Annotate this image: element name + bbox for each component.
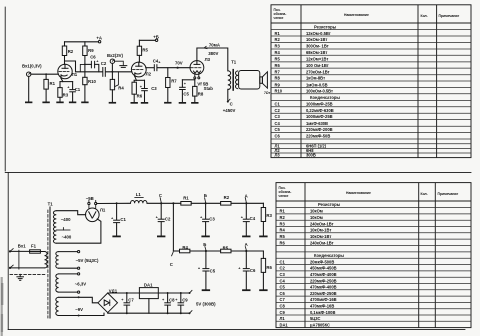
T1 5V winding — [56, 252, 59, 269]
wire pin2 to primary bottom — [10, 267, 45, 269]
svg-text:68кОм-1Вт: 68кОм-1Вт — [306, 50, 327, 55]
svg-text:450мкФ-450В: 450мкФ-450В — [310, 266, 337, 271]
resistor R7 — [167, 68, 169, 78]
wire B+ rail — [97, 202, 131, 204]
svg-text:R3: R3 — [63, 93, 69, 98]
wire cathode Л3 — [194, 79, 196, 87]
capacitor C5 (psu) — [205, 251, 207, 268]
resistor R3 — [59, 82, 61, 88]
speaker — [239, 71, 260, 90]
input jack Вх1 — [27, 72, 31, 76]
svg-text:10кОм-1Вт: 10кОм-1Вт — [310, 234, 331, 239]
triode Л3 — [190, 61, 204, 75]
wire C2 to grid Л2 — [106, 71, 132, 73]
capacitor C1 (psu) — [116, 202, 118, 204]
wire +A rail — [65, 41, 99, 43]
resistor R1 — [45, 74, 47, 79]
svg-text:R4: R4 — [275, 50, 281, 55]
HV center tap — [56, 229, 70, 231]
ground (C1 psu) — [112, 236, 120, 238]
svg-text:C9: C9 — [182, 297, 188, 302]
resistor R5 (psu) — [221, 249, 231, 253]
svg-text:R7: R7 — [171, 78, 177, 83]
svg-text:10кОм-1Вт: 10кОм-1Вт — [306, 37, 327, 42]
svg-text:Л1: Л1 — [100, 207, 106, 212]
wire pin1 to fuse — [10, 250, 30, 252]
svg-text:C5: C5 — [275, 127, 281, 132]
svg-text:R9: R9 — [88, 48, 94, 53]
wire C4 to grid Л3 — [157, 67, 190, 69]
ground (R6 psu) — [259, 289, 267, 291]
node А (row2) — [245, 250, 247, 252]
svg-text:300В: 300В — [306, 153, 316, 158]
svg-text:R2: R2 — [68, 49, 74, 54]
svg-text:Кол.: Кол. — [421, 192, 428, 196]
svg-text:R8: R8 — [275, 76, 281, 81]
wire plate Л2 to C4 — [146, 67, 154, 69]
svg-text:C3: C3 — [151, 86, 157, 91]
triode Л2 — [131, 62, 146, 77]
svg-text:Конденсаторы: Конденсаторы — [310, 95, 340, 100]
svg-text:0,22мкФ-630В: 0,22мкФ-630В — [306, 108, 334, 113]
node R1 top — [45, 73, 47, 75]
svg-text:Кол.: Кол. — [421, 14, 428, 18]
svg-text:~9V: ~9V — [75, 307, 83, 312]
svg-text:C1: C1 — [75, 87, 81, 92]
svg-text:1000мкФ-25В: 1000мкФ-25В — [306, 114, 333, 119]
svg-text:R5: R5 — [142, 48, 148, 53]
resistor R10 — [83, 77, 87, 84]
svg-text:Вх2(3V): Вх2(3V) — [107, 53, 124, 58]
node C (row1) — [160, 202, 162, 204]
top table row lines — [271, 29, 471, 31]
capacitor C5 — [181, 80, 183, 87]
svg-text:240кОм-1Вт: 240кОм-1Вт — [310, 221, 334, 226]
filament pins Л3 — [194, 77, 196, 79]
page edge scan band — [1, 277, 3, 336]
node branch to row2 — [172, 202, 174, 204]
svg-text:μА7805КС: μА7805КС — [310, 322, 330, 327]
output terminal 5V top — [189, 292, 191, 294]
svg-text:~5В: ~5В — [86, 196, 94, 201]
capacitor C1 — [72, 82, 74, 90]
wire C6 left stub — [80, 64, 85, 71]
svg-text:20мкФ-500В: 20мкФ-500В — [310, 259, 334, 264]
svg-text:R6: R6 — [137, 94, 143, 99]
svg-text:+Б: +Б — [153, 34, 159, 39]
resistor R9 — [84, 42, 86, 46]
svg-text:C6: C6 — [280, 291, 286, 296]
ground (R8) — [191, 102, 198, 104]
svg-text:R10: R10 — [88, 79, 96, 84]
resistor R2 (psu) — [221, 202, 231, 206]
svg-text:Б: Б — [203, 242, 206, 247]
svg-text:Л2: Л2 — [146, 72, 152, 77]
wire cathode Л1 — [61, 78, 63, 81]
svg-text:R4: R4 — [118, 86, 124, 91]
svg-text:10кОм: 10кОм — [310, 209, 323, 214]
capacitor C3 (psu) — [205, 203, 207, 219]
T1 HV winding ~400/~400 — [53, 211, 56, 244]
svg-text:Т1: Т1 — [48, 202, 54, 207]
wire R2 to R3 — [231, 202, 263, 204]
ground (jack) — [25, 102, 32, 104]
capacitor C8 — [167, 292, 169, 294]
ground (C6 psu) — [242, 289, 250, 291]
capacitor C4 — [153, 64, 155, 71]
svg-text:R3: R3 — [266, 213, 272, 218]
svg-text:R1: R1 — [280, 209, 286, 214]
ground (C3) — [141, 102, 148, 104]
resistor R8 — [193, 86, 197, 96]
svg-text:чение: чение — [279, 194, 289, 198]
svg-text:Stab: Stab — [204, 86, 214, 91]
jack Вх2 sleeve chassis — [115, 61, 124, 65]
svg-text:380V: 380V — [208, 51, 218, 56]
svg-text:+450V: +450V — [223, 108, 236, 113]
svg-text:Примечание: Примечание — [439, 14, 460, 18]
svg-text:C: C — [230, 101, 233, 106]
svg-text:C2: C2 — [275, 108, 281, 113]
wire R4 to R5 — [190, 250, 221, 252]
svg-text:DA1: DA1 — [280, 322, 289, 327]
svg-text:10кОм-1Вт: 10кОм-1Вт — [310, 228, 331, 233]
svg-text:470мкФ-16В: 470мкФ-16В — [310, 304, 334, 309]
wire cathode Л2 — [135, 76, 137, 80]
svg-text:R8: R8 — [198, 91, 204, 96]
svg-text:1мкФ-630В: 1мкФ-630В — [306, 121, 328, 126]
resistor R1 (psu) — [181, 202, 191, 206]
resistor R6 — [133, 80, 135, 82]
svg-text:R10: R10 — [275, 89, 283, 94]
wire branch down — [172, 203, 174, 251]
wire top rail 5V — [108, 292, 190, 294]
top parts table frame — [271, 5, 471, 158]
svg-text:C7: C7 — [128, 297, 134, 302]
capacitor C4 (psu) — [245, 203, 247, 219]
svg-text:F1: F1 — [31, 243, 37, 248]
resistor R2 — [64, 42, 66, 46]
svg-text:~400: ~400 — [62, 235, 72, 240]
svg-text:Примечание: Примечание — [438, 192, 459, 196]
svg-text:C: C — [159, 193, 162, 198]
svg-text:C8: C8 — [169, 297, 175, 302]
svg-text:чение: чение — [274, 16, 284, 20]
terminal +A — [98, 41, 100, 43]
svg-text:R6: R6 — [280, 240, 286, 245]
svg-text:Л1: Л1 — [72, 72, 78, 77]
T1 9V winding — [56, 297, 59, 315]
node Б (row2) — [205, 250, 207, 252]
ground (R1) — [42, 102, 49, 104]
svg-text:C1: C1 — [275, 101, 281, 106]
svg-text:100 Ом-1Вт: 100 Ом-1Вт — [306, 63, 329, 68]
svg-text:C5: C5 — [183, 91, 189, 96]
svg-text:C3: C3 — [275, 114, 281, 119]
svg-text:C3: C3 — [280, 272, 286, 277]
bottom parts table frame — [276, 183, 471, 328]
ground (C2 psu) — [157, 236, 165, 238]
svg-text:Резисторы: Резисторы — [318, 202, 341, 207]
svg-text:C1: C1 — [120, 217, 126, 222]
rectifier tube Л1 (5Ц3С) — [86, 208, 100, 222]
wire jack to grid Л1 — [31, 73, 58, 75]
svg-text:R4: R4 — [280, 228, 286, 233]
capacitor C6 (psu) — [245, 251, 247, 268]
potentiometer R4 — [110, 79, 114, 89]
svg-text:C4: C4 — [280, 278, 286, 283]
svg-text:Л3: Л3 — [275, 153, 281, 158]
svg-text:Л1: Л1 — [280, 316, 286, 321]
resistor R6 (psu) — [262, 251, 264, 258]
node Вх2/R4 — [111, 71, 113, 73]
T1 primary winding (mains) — [45, 252, 48, 268]
svg-text:0,1мкФ-100В: 0,1мкФ-100В — [310, 310, 335, 315]
svg-text:А: А — [245, 194, 248, 199]
ground (R4) — [109, 102, 116, 104]
svg-text:1кОм-8Вт: 1кОм-8Вт — [306, 76, 325, 81]
node А (row1) — [245, 202, 247, 204]
ground (R3) — [56, 102, 63, 104]
wire T1 primary bottom to +450V — [227, 89, 229, 101]
wire bottom rail — [108, 312, 190, 315]
svg-text:100кОм-0.5Вт: 100кОм-0.5Вт — [306, 89, 333, 94]
svg-text:1мОм-0.5В: 1мОм-0.5В — [306, 82, 328, 87]
svg-text:R1: R1 — [183, 196, 189, 201]
wire HV top to rectifier plate — [56, 211, 85, 215]
svg-text:~6,3V: ~6,3V — [75, 282, 86, 287]
svg-text:R5: R5 — [275, 57, 281, 62]
svg-text:220мкФ-200В: 220мкФ-200В — [306, 127, 333, 132]
svg-text:12кОм×1Вт: 12кОм×1Вт — [306, 57, 328, 62]
svg-text:C4: C4 — [275, 121, 281, 126]
wire R5 to R6 — [231, 250, 263, 252]
ground (C4 psu) — [242, 236, 250, 238]
svg-text:C9: C9 — [280, 310, 286, 315]
bottom table row lines — [276, 206, 471, 208]
svg-text:R5: R5 — [223, 246, 229, 251]
shield dashed — [10, 273, 46, 275]
svg-text:10кОм: 10кОм — [310, 215, 323, 220]
capacitor C3 — [144, 80, 146, 88]
T1 primary winding — [228, 71, 231, 90]
ground (R7) — [164, 102, 171, 104]
svg-text:C2: C2 — [280, 266, 286, 271]
svg-text:220мкФ-250В: 220мкФ-250В — [310, 291, 337, 296]
svg-text:~400: ~400 — [61, 217, 71, 222]
ground (R6) — [131, 102, 138, 104]
ground (shield) — [19, 274, 21, 276]
ground (R3 psu) — [259, 236, 267, 238]
T1 core — [232, 69, 234, 91]
T1 core — [49, 207, 51, 318]
resistor R4 (psu) — [180, 249, 190, 253]
svg-text:Л3: Л3 — [205, 57, 211, 62]
wire +Б rail — [139, 39, 155, 41]
svg-text:Резисторы: Резисторы — [314, 24, 337, 29]
svg-text:R2: R2 — [224, 195, 230, 200]
svg-text:7Ωт: 7Ωт — [264, 91, 271, 95]
svg-text:C1: C1 — [280, 259, 286, 264]
svg-text:300Ом- 1Вт: 300Ом- 1Вт — [306, 44, 329, 49]
ground (C1) — [69, 102, 76, 104]
resistor R5 — [138, 40, 140, 46]
capacitor C6 — [85, 63, 92, 65]
top sheet left border — [4, 7, 6, 171]
svg-text:R1: R1 — [50, 81, 56, 86]
resistor R3 (psu) — [262, 203, 264, 207]
svg-text:+А: +А — [96, 36, 102, 41]
node Б (row1) — [205, 202, 207, 204]
wire jack Вх2 down — [111, 63, 113, 71]
svg-text:C7: C7 — [280, 297, 286, 302]
svg-text:R6: R6 — [266, 265, 272, 270]
svg-text:C6: C6 — [250, 268, 256, 273]
wire HV bottom to rectifier plate — [56, 219, 101, 243]
svg-text:~5V (5Ц3С): ~5V (5Ц3С) — [76, 258, 99, 263]
wire row2 start — [173, 250, 179, 252]
svg-text:470мкФ-400В: 470мкФ-400В — [310, 272, 337, 277]
svg-text:270кОм-1Вт: 270кОм-1Вт — [306, 70, 330, 75]
svg-text:C3: C3 — [209, 216, 215, 221]
svg-text:240кОм-1Вт: 240кОм-1Вт — [310, 240, 334, 245]
svg-text:R6: R6 — [275, 63, 281, 68]
svg-text:70V: 70V — [175, 61, 183, 66]
svg-text:L1: L1 — [136, 192, 142, 197]
svg-text:R2: R2 — [280, 215, 286, 220]
svg-text:1000мкФ-25В: 1000мкФ-25В — [306, 101, 333, 106]
sheet divider line — [5, 171, 471, 173]
capacitor C2 — [102, 67, 104, 77]
svg-text:5V (300В): 5V (300В) — [196, 302, 216, 307]
svg-text:C5: C5 — [280, 285, 286, 290]
wire jack sleeve down — [28, 76, 30, 101]
svg-text:R4: R4 — [182, 245, 188, 250]
svg-text:А: А — [245, 242, 248, 247]
svg-text:470мкФ-400В: 470мкФ-400В — [310, 285, 337, 290]
svg-text:220мкФ-50В: 220мкФ-50В — [306, 134, 330, 139]
wire 9V bottom to bridge — [59, 313, 104, 315]
input jack Вх2 — [110, 59, 114, 63]
wire rail L1 to R1 — [147, 202, 181, 204]
svg-text:Вх1(0,3V): Вх1(0,3V) — [22, 64, 42, 69]
node C6 tap — [84, 64, 86, 66]
terminal C +450V — [227, 101, 229, 103]
node 70V — [177, 67, 179, 69]
svg-text:R3: R3 — [280, 221, 286, 226]
triode Л1 — [58, 64, 72, 78]
output terminal 5V bottom — [189, 312, 191, 314]
ground (C3 psu) — [201, 236, 209, 238]
wire plate Л1 to C2 — [65, 61, 103, 72]
svg-text:4700мкФ-16В: 4700мкФ-16В — [310, 297, 337, 302]
T1 6.3V winding — [56, 274, 59, 292]
ground (C5) — [179, 102, 186, 104]
svg-text:C8: C8 — [280, 304, 286, 309]
terminal +Б — [155, 39, 157, 41]
svg-text:Вх1: Вх1 — [18, 243, 26, 248]
svg-text:C2: C2 — [101, 61, 107, 66]
svg-text:Наименование: Наименование — [344, 13, 369, 17]
svg-text:C4: C4 — [250, 216, 256, 221]
svg-text:70мА: 70мА — [209, 43, 220, 48]
svg-text:R3: R3 — [275, 44, 281, 49]
svg-text:R7: R7 — [275, 70, 281, 75]
ground (C5 psu) — [202, 289, 210, 291]
svg-text:220мкФ-250В: 220мкФ-250В — [310, 278, 337, 283]
svg-text:Т1: Т1 — [231, 60, 237, 65]
bottom sheet bottom border — [8, 329, 465, 331]
bottom sheet left border — [7, 172, 9, 329]
svg-text:R9: R9 — [275, 82, 281, 87]
svg-text:R1: R1 — [275, 31, 281, 36]
svg-text:Б: Б — [204, 193, 207, 198]
svg-text:C6: C6 — [275, 134, 281, 139]
capacitor C7 — [126, 292, 128, 294]
svg-text:5Ц3С: 5Ц3С — [310, 316, 321, 321]
svg-text:R2: R2 — [275, 37, 281, 42]
capacitor C2 (psu) — [160, 203, 162, 219]
wire R1 to R2 — [191, 202, 220, 204]
svg-text:Наименование: Наименование — [346, 191, 371, 195]
wire 9V top to bridge — [59, 297, 98, 303]
svg-text:C5: C5 — [210, 269, 216, 274]
node C (row2) — [172, 252, 174, 256]
T1 secondary winding — [236, 71, 239, 89]
svg-text:Конденсаторы: Конденсаторы — [314, 253, 344, 258]
svg-text:12кОм-0.5Вт: 12кОм-0.5Вт — [306, 31, 331, 36]
filament pins — [88, 202, 90, 204]
svg-text:C2: C2 — [165, 216, 171, 221]
svg-text:R5: R5 — [280, 234, 286, 239]
ground (R10) — [81, 102, 88, 104]
svg-text:C: C — [170, 262, 173, 267]
wire plate Л3 to T1 — [197, 48, 228, 71]
capacitor C9 — [180, 292, 182, 294]
svg-text:DA1: DA1 — [144, 283, 153, 288]
